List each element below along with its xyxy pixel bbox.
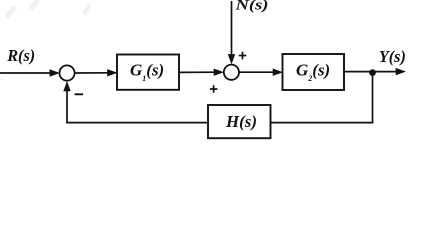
block H <box>208 105 271 138</box>
arrowhead into S1 <box>50 69 60 76</box>
svg-text:R(s): R(s) <box>6 46 35 65</box>
summing junction S1 <box>59 65 74 80</box>
svg-text:G2(s): G2(s) <box>296 61 330 84</box>
plus sign at S2 left input <box>210 85 218 93</box>
svg-text:N(s): N(s) <box>234 0 268 14</box>
svg-text:G1(s): G1(s) <box>130 61 164 84</box>
block G2 <box>283 54 345 90</box>
wire: S1 to block G1 <box>75 72 110 74</box>
arrowhead into G1 <box>107 69 117 76</box>
wire: feedback up into S1 <box>66 87 68 123</box>
arrowhead into S2 <box>214 69 224 76</box>
arrowhead down into S2 <box>228 54 235 64</box>
output arrowhead <box>396 68 406 75</box>
plus sign at S2 top input <box>239 52 247 60</box>
wire: N(s) down to S2 <box>231 1 233 58</box>
wire: G2 to output arrow <box>344 71 399 73</box>
node: output take-off point <box>369 69 376 76</box>
wire: input R(s) to summing junction S1 <box>0 72 52 74</box>
svg-text:H(s): H(s) <box>225 112 257 131</box>
summing junction S2 <box>224 65 239 80</box>
arrowhead into G2 <box>273 69 283 76</box>
block G1 <box>117 55 179 90</box>
svg-text:Y(s): Y(s) <box>379 47 406 66</box>
scan smudge top-left <box>0 0 91 80</box>
wire: feedback left segment from H to S1 column <box>66 122 208 124</box>
wire: feedback right segment to H <box>271 122 374 124</box>
wire: take-off node down <box>372 72 374 123</box>
arrowhead up into S1 <box>63 81 70 91</box>
wire: G1 to summing junction S2 <box>179 71 217 73</box>
wire: S2 to block G2 <box>239 71 276 73</box>
minus sign at S1 feedback input <box>75 93 84 95</box>
